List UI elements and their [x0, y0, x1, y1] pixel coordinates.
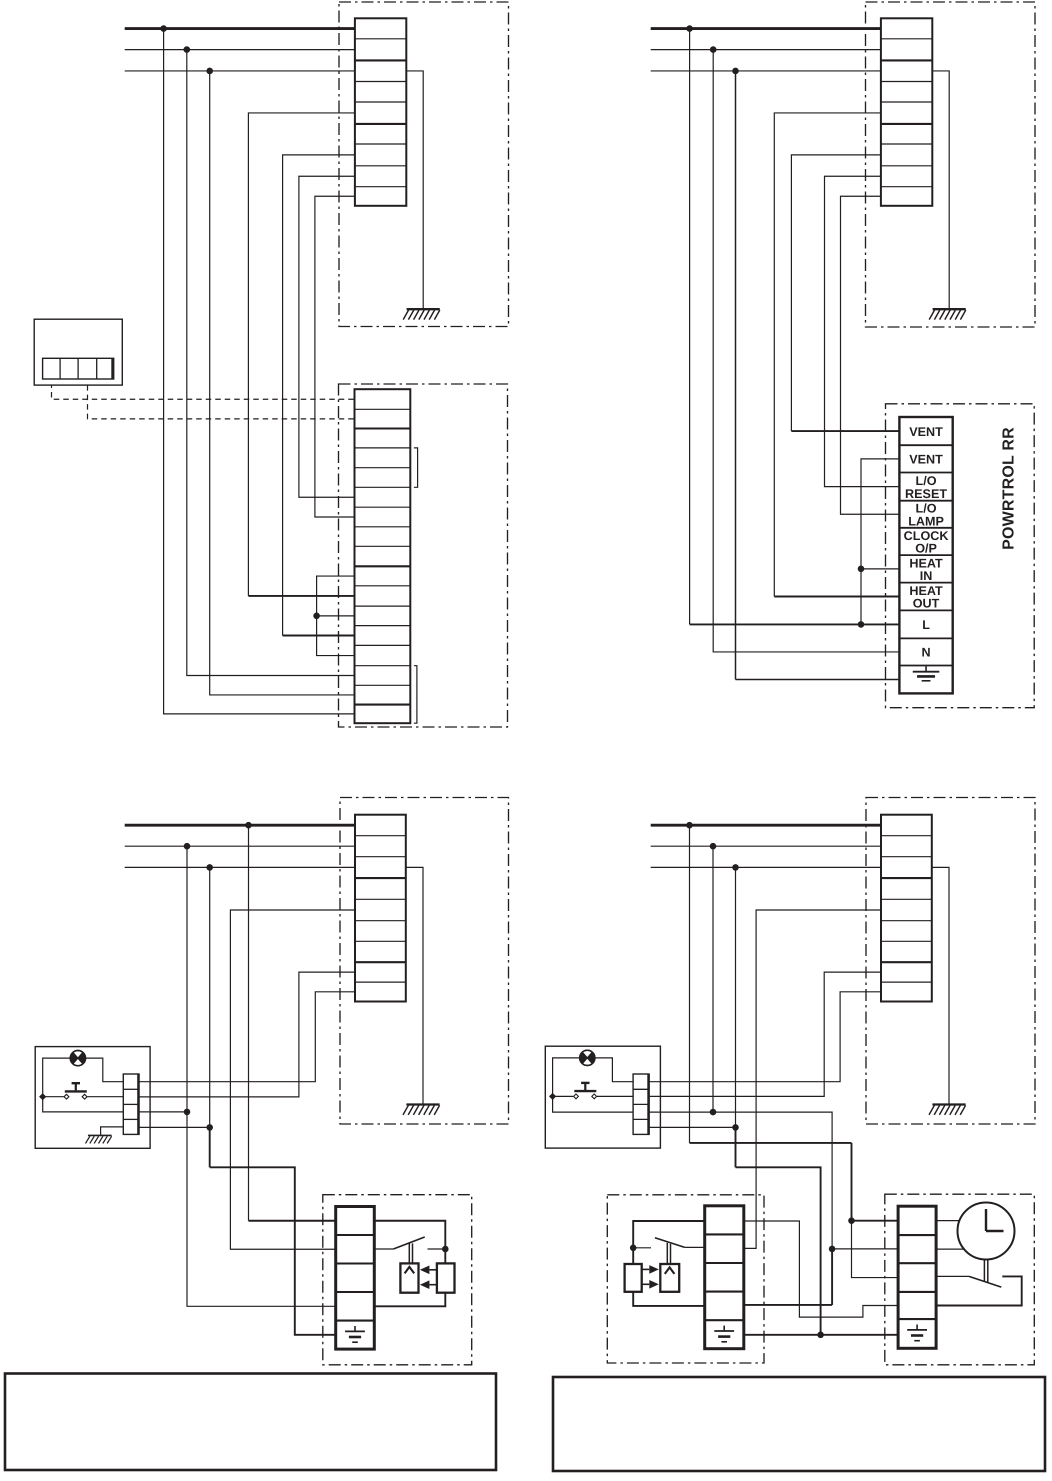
valve actuator linkage (right) [667, 1243, 670, 1264]
wire from E junction down to strip terminal 16 [210, 71, 355, 695]
valve auxiliary switch contact stub [428, 1248, 446, 1250]
junction on link wire at HEAT IN [858, 566, 865, 573]
wire programmer terminal 3 to earth (bottom-right) [932, 867, 949, 1104]
wiring centre box (bottom-left) [35, 1047, 150, 1149]
svg-text:O/P: O/P [915, 542, 937, 556]
wire programmer terminal 9 to Powrtrol L/O LAMP [841, 196, 900, 514]
push button [65, 1083, 87, 1091]
room thermostat dashed wire 1 to strip terminal 1 [51, 379, 53, 383]
wire L supply (top-right) [651, 27, 881, 30]
wiring centre terminal strip (bottom-right) [633, 1074, 649, 1134]
svg-text:LAMP: LAMP [908, 514, 944, 528]
wire programmer terminal 9 to wiring centre terminal 1 [649, 992, 881, 1082]
POWRTROL RR terminal block [899, 417, 952, 693]
wire from E junction to earth link [735, 867, 737, 1127]
wire valve terminal 2 to switch pivot [374, 1248, 393, 1250]
valve auxiliary switch blade (right) [655, 1238, 685, 1248]
wire N supply (bottom-right) [651, 845, 881, 847]
programmer enclosure (top-right) [866, 2, 1036, 327]
wire from L junction to clock box terminal 1 [689, 825, 691, 1143]
Powrtrol earth terminal symbol [913, 666, 940, 681]
wire valve terminal 1 to clock terminal 4 [744, 1221, 898, 1317]
junction E (top-right) [732, 68, 739, 75]
wire from L junction to Powrtrol L terminal [689, 29, 691, 625]
switch contact left (right box) [574, 1094, 579, 1099]
junction E (bottom-right) [732, 864, 739, 871]
junction E (bottom-left) [206, 864, 213, 871]
clock enclosure [885, 1194, 1035, 1365]
link wire clock terminal 1 to terminal 3 [852, 1221, 899, 1278]
valve spring symbol [405, 1267, 415, 1274]
junction L (top-right) [686, 25, 693, 32]
wire from N junction to valve terminal 4 [187, 846, 336, 1306]
link wire Powrtrol VENT 2 / HEAT IN / L [861, 459, 899, 625]
wire to switch contact [43, 1096, 64, 1098]
wire from L junction to valve terminal 1 [248, 825, 250, 1221]
valve auxiliary switch contact stub (right) [633, 1247, 651, 1249]
junction valve auxiliary switch [442, 1246, 449, 1253]
junction on earth link [817, 1332, 824, 1339]
wire lamp feed (left leg) [43, 1058, 124, 1112]
junction L (bottom-right) [686, 822, 693, 829]
valve actuator linkage [409, 1242, 412, 1263]
junction E (top-left) [206, 68, 213, 75]
valve arrow upper (right) [642, 1265, 659, 1274]
wire programmer terminal 3 to earth (top-right) [932, 71, 949, 309]
junction at clock box terminal 1 [848, 1217, 855, 1224]
wire programmer terminal 5 to valve terminal 2 [744, 910, 881, 1248]
wire wiring centre terminal 4 to ground [101, 1127, 124, 1136]
wire E supply (top-left) [125, 70, 355, 72]
wire programmer terminal 5 to valve terminal 2 [230, 910, 355, 1249]
valve motor box (right) [625, 1264, 642, 1292]
programmer enclosure (bottom-right) [866, 798, 1035, 1125]
valve earth terminal symbol (bottom-left) [345, 1326, 365, 1342]
wire programmer terminal 7 to Powrtrol VENT 1 [791, 155, 881, 431]
junction on L wire at Powrtrol L terminal [858, 621, 865, 628]
valve earth terminal symbol (bottom-right) [714, 1326, 734, 1342]
note box (bottom-right) [553, 1377, 1045, 1471]
valve arrow lower (right) [642, 1280, 659, 1289]
svg-text:IN: IN [920, 569, 933, 583]
wire programmer terminal 8 to Powrtrol L/O RESET [825, 176, 900, 486]
room thermostat dashed wire 2 to strip terminal 2 [87, 379, 89, 385]
clock switch contact and wire to terminal 4 [936, 1276, 1022, 1305]
wire programmer terminal 3 to earth (top-left) [406, 71, 423, 309]
valve enclosure (bottom-left) [323, 1195, 472, 1365]
wire clock terminal 1 to clock motor [936, 1220, 959, 1222]
link wire strip terminals 10-12-14 [317, 576, 355, 656]
svg-text:VENT: VENT [909, 425, 943, 439]
junction at switch feed [40, 1094, 46, 1100]
wire switch to wiring centre terminal 2 (right) [597, 1095, 633, 1097]
junction valve auxiliary switch (right) [630, 1245, 637, 1252]
valve spring symbol (right) [665, 1267, 675, 1274]
switch contact left [64, 1094, 69, 1099]
wire L supply (bottom-right) [651, 824, 881, 827]
valve arrow lower [420, 1280, 437, 1289]
wire N supply (bottom-left) [125, 845, 355, 847]
wiring strip terminal block (centre-left) [355, 389, 411, 723]
wire clock terminal 2 to clock motor [936, 1248, 963, 1250]
wire wiring centre terminal 4 to E junction [649, 1126, 735, 1128]
ground (bottom-left programmer) [403, 1105, 440, 1115]
junction on E wire at wiring centre terminal 4 [206, 1124, 213, 1131]
wire valve motor to terminal 4 [374, 1293, 445, 1307]
programmer terminal block (bottom-right) [881, 815, 932, 1002]
wiring centre box (bottom-right) [545, 1046, 660, 1148]
wire valve terminal 2 to switch pivot (right) [685, 1246, 705, 1248]
earth link valve to clock box [744, 1334, 898, 1336]
junction N (top-left) [184, 46, 191, 53]
note box (bottom-left) [5, 1374, 496, 1471]
valve enclosure (bottom-right) [607, 1195, 764, 1363]
wire programmer terminal 8 to wiring centre terminal 2 [649, 972, 881, 1096]
wire valve motor to terminal 4 (right) [633, 1292, 705, 1306]
wire N supply (top-right) [651, 49, 881, 51]
wire programmer terminal 8 to wiring centre terminal 2 [139, 972, 355, 1097]
wire N supply (top-left) [125, 49, 355, 51]
wire wiring centre terminal 3 to N junction [139, 1111, 187, 1113]
wire from N junction to Powrtrol N terminal [713, 50, 899, 652]
junction N (bottom-right) [710, 843, 717, 850]
valve wire terminal 1 to motor (right) [633, 1221, 705, 1264]
wire to switch contact (right) [553, 1095, 574, 1097]
wire programmer terminal 7 to strip terminal 13 [283, 155, 355, 636]
programmer enclosure (top-left) [339, 2, 509, 327]
valve wire terminal 1 to motor [374, 1221, 445, 1264]
junction on wiring centre terminal 3 wire [710, 1109, 717, 1116]
wire lamp feed left leg (right) [553, 1058, 634, 1112]
room thermostat terminal strip [43, 358, 114, 379]
push button (right box) [574, 1083, 596, 1091]
Powrtrol enclosure [886, 404, 1035, 708]
ground (wiring centre bottom-left) [85, 1135, 111, 1143]
junction at switch feed (right) [550, 1094, 556, 1100]
wire programmer terminal 9 to wiring centre terminal 1 [139, 992, 355, 1082]
valve spring-return box (right) [660, 1264, 679, 1292]
valve terminal block (bottom-right) [705, 1206, 744, 1349]
switch contact right [82, 1094, 87, 1099]
wire programmer terminal 8 to strip terminal 6 [299, 176, 355, 497]
svg-text:VENT: VENT [909, 453, 943, 467]
valve auxiliary switch blade [393, 1237, 424, 1249]
svg-text:OUT: OUT [913, 597, 940, 611]
room thermostat box [34, 319, 122, 385]
wire from L junction down to strip terminal 17 [164, 29, 355, 714]
wire programmer terminal 9 to strip terminal 7 [315, 196, 355, 517]
valve arrow upper [420, 1266, 437, 1275]
ground (bottom-right programmer) [929, 1105, 966, 1115]
junction L (bottom-left) [245, 822, 252, 829]
wire from N junction down to strip terminal 15 [187, 50, 355, 676]
svg-text:POWRTROL RR: POWRTROL RR [1001, 427, 1018, 550]
clock switch blade [969, 1276, 1001, 1287]
valve spring-return box [400, 1263, 418, 1292]
clock terminal block [898, 1206, 936, 1348]
programmer enclosure (bottom-left) [340, 798, 509, 1125]
ground (top-left programmer) [403, 309, 440, 319]
programmer terminal block (top-left) [355, 18, 406, 206]
junction on link wire at strip terminal 12 [313, 613, 320, 620]
programmer terminal block (top-right) [881, 18, 932, 206]
svg-text:N: N [921, 646, 930, 660]
wire wiring centre terminal 3 to clock terminal 2 and valve terminal 4 [649, 1112, 832, 1249]
ground (top-right programmer) [929, 309, 966, 319]
link bracket strip terminals 15-17 [414, 666, 417, 724]
junction at clock terminal 2 branch [829, 1246, 836, 1253]
wire E supply (bottom-left) [125, 866, 355, 868]
wire switch to wiring centre terminal 2 [87, 1096, 123, 1098]
wiring centre terminal strip (bottom-left) [123, 1074, 139, 1134]
junction N (bottom-left) [184, 843, 191, 850]
clock actuator linkage [984, 1260, 987, 1283]
wire from E junction to valve earth terminal [209, 867, 211, 1127]
wire programmer terminal 3 to earth (bottom-left) [406, 867, 423, 1104]
svg-text:RESET: RESET [905, 487, 947, 501]
time clock [958, 1203, 1015, 1260]
wire from E junction to Powrtrol earth terminal [735, 71, 737, 680]
programmer terminal block (bottom-left) [355, 815, 406, 1002]
wire E supply (top-right) [651, 70, 881, 72]
svg-text:L: L [922, 618, 930, 632]
wire E supply (bottom-right) [651, 866, 881, 868]
valve terminal block (bottom-left) [336, 1207, 375, 1350]
clock earth terminal symbol [907, 1325, 927, 1341]
wire wiring centre terminal 4 to E junction [139, 1126, 210, 1128]
valve motor box [437, 1263, 455, 1292]
switch contact right (right box) [592, 1094, 597, 1099]
link bracket strip terminals 4-5 [414, 448, 418, 487]
wiring strip enclosure (centre-left) [339, 384, 508, 727]
wire L supply (bottom-left) [125, 824, 355, 827]
wire programmer terminal 5 to strip terminal 11 [248, 113, 355, 596]
wire programmer terminal 5 to Powrtrol HEAT OUT [774, 113, 881, 597]
wire lamp to wiring centre terminal 1 (right) [595, 1058, 633, 1082]
wire from N junction down to room circuit [712, 846, 714, 1112]
junction on E wire at wiring centre terminal 4 [732, 1124, 739, 1131]
junction on N wire at wiring centre terminal 3 [184, 1109, 191, 1116]
junction N (top-right) [710, 46, 717, 53]
wire L supply (top-left) [125, 27, 355, 30]
junction L (top-left) [160, 25, 167, 32]
wire clock terminal 3 to clock switch pivot [936, 1275, 969, 1277]
lamp (bottom-left wiring centre) [70, 1051, 85, 1066]
wire lamp to wiring centre terminal 1 [85, 1058, 123, 1082]
lamp (bottom-right wiring centre) [580, 1050, 595, 1065]
